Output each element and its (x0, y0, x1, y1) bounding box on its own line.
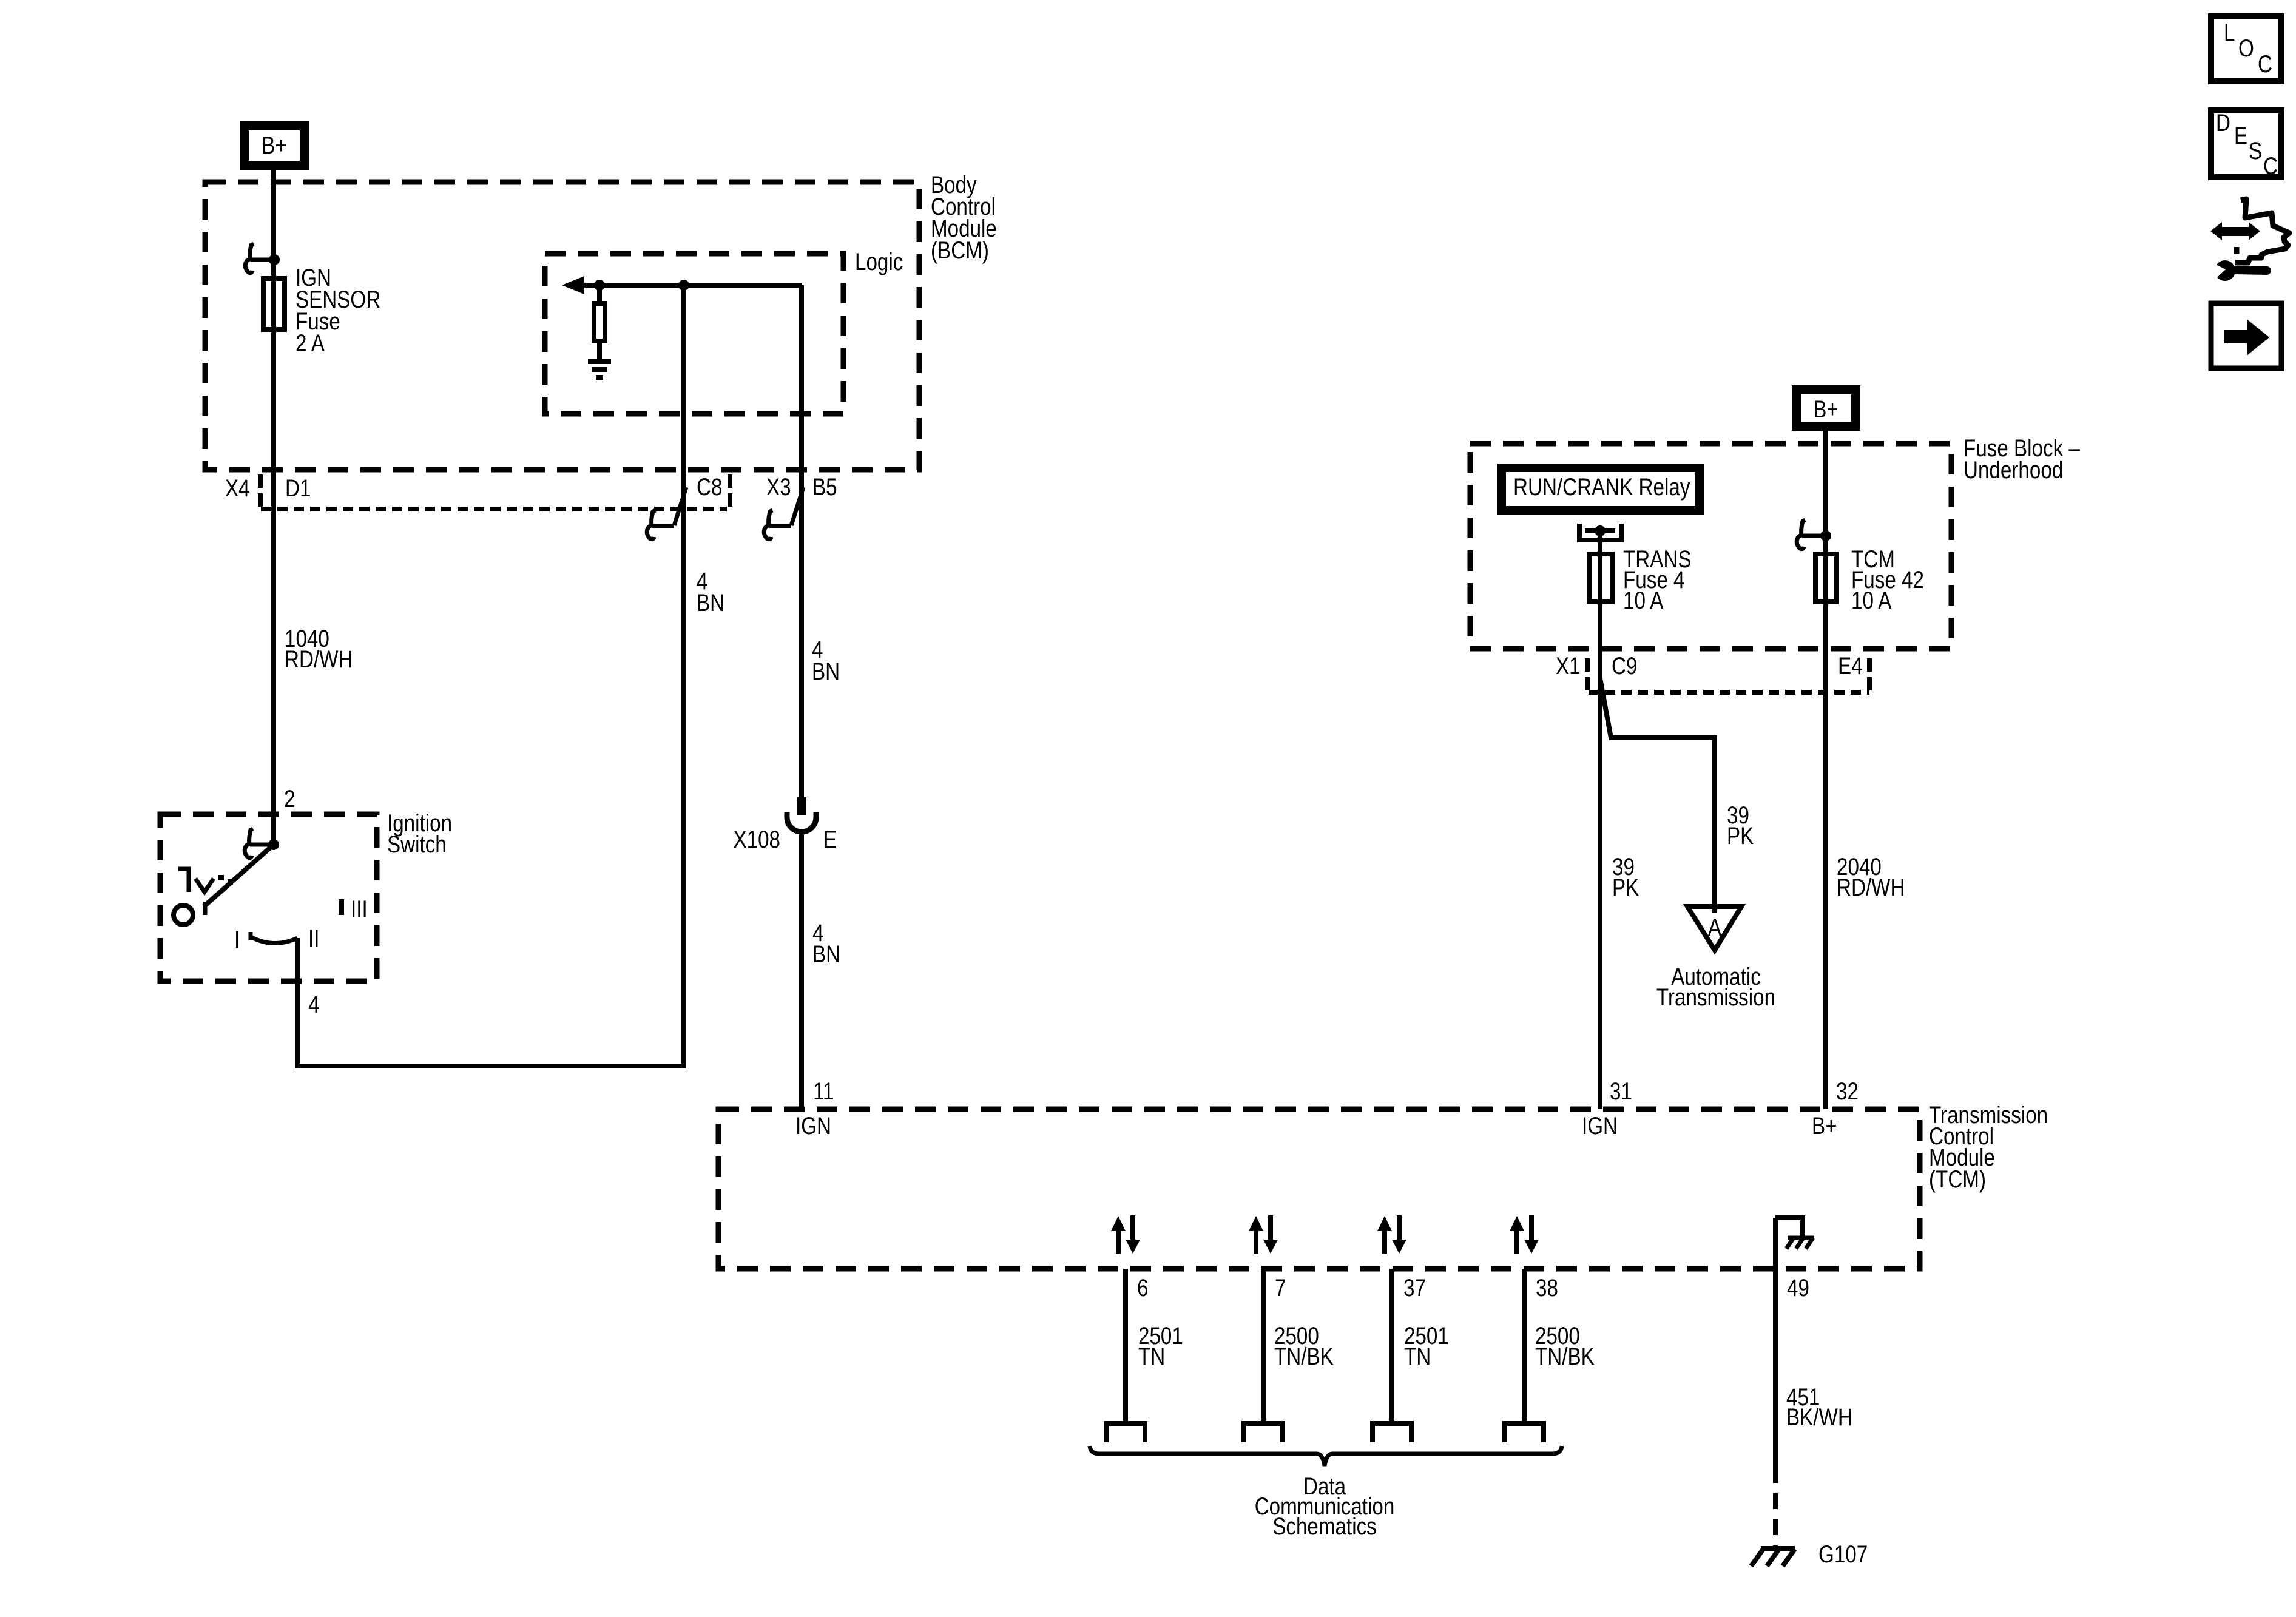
svg-text:TN/BK: TN/BK (1535, 1343, 1595, 1370)
logic bus wire with arrow (570, 283, 802, 288)
rotary contact arc (249, 932, 253, 940)
svg-text:E: E (2234, 122, 2247, 149)
off-page triangle A: Automatic Transmission (1687, 906, 1741, 950)
svg-text:C: C (2263, 152, 2278, 180)
fuse block connector strip X1 C9 / E4 (1589, 690, 1869, 695)
svg-text:RD/WH: RD/WH (1837, 874, 1905, 901)
TCM data pin 7 (1261, 1269, 1266, 1423)
svg-text:C9: C9 (1612, 652, 1637, 680)
Ignition Switch dashed box (160, 814, 377, 981)
svg-text:31: 31 (1610, 1078, 1632, 1105)
svg-text:(TCM): (TCM) (1929, 1166, 1986, 1193)
svg-text:TN: TN (1138, 1343, 1165, 1370)
position mark III (339, 899, 344, 915)
svg-text:RD/WH: RD/WH (285, 646, 353, 673)
BCM connector strip X4/D1 C8 (261, 507, 727, 511)
svg-text:10 A: 10 A (1623, 587, 1664, 614)
diagnostic car/wrench icon (2210, 222, 2260, 240)
node: C8 tap (678, 280, 689, 291)
TCM data pin 37 (1389, 1269, 1394, 1423)
B+ power symbol (left) (245, 126, 305, 166)
ignition key OFF contact mark (178, 869, 189, 892)
brace: Data Communication Schematics (1090, 1446, 1562, 1466)
svg-text:BK/WH: BK/WH (1786, 1403, 1852, 1431)
ignition switch pivot circle (174, 905, 193, 925)
branch wire 39 PK to Automatic Transmission (1600, 678, 1715, 913)
svg-text:S: S (2249, 137, 2262, 164)
svg-text:49: 49 (1787, 1274, 1809, 1301)
RUN/CRANK Relay box (1502, 468, 1700, 510)
svg-text:IGN: IGN (795, 1112, 831, 1139)
svg-text:38: 38 (1536, 1274, 1558, 1301)
arrow icon box (2211, 303, 2281, 368)
svg-text:E4: E4 (1838, 652, 1863, 680)
DESC icon box (2211, 110, 2281, 177)
dashed wire to G107 (1773, 1467, 1778, 1546)
svg-text:III: III (351, 896, 368, 923)
svg-text:PK: PK (1612, 874, 1639, 901)
svg-text:D1: D1 (285, 474, 311, 502)
TCM dashed box (718, 1109, 1920, 1269)
ground symbol in logic box (588, 359, 611, 364)
wire: B+ through TCM fuse 42 to TCM pin 32 (1823, 431, 1828, 1109)
svg-text:B+: B+ (1813, 396, 1838, 423)
relay contact bracket (1579, 524, 1621, 540)
svg-text:6: 6 (1137, 1274, 1148, 1301)
ground G107 (1761, 1546, 1795, 1551)
svg-text:10 A: 10 A (1851, 587, 1892, 614)
svg-text:O: O (2238, 35, 2254, 62)
fuse IGN SENSOR Fuse 2 A (263, 279, 285, 329)
svg-text:BN: BN (812, 940, 840, 968)
Fuse Block - Underhood dashed box (1470, 444, 1951, 649)
wire: B5 branch down from logic (799, 285, 804, 797)
clip at TCM fuse 42 (1797, 520, 1805, 549)
svg-text:X4: X4 (225, 474, 250, 502)
svg-text:Logic: Logic (855, 248, 903, 275)
wire: relay through TRANS fuse to TCM pin 31 (1598, 531, 1602, 1109)
connector slash+hook at X3/B5 (791, 487, 803, 525)
svg-text:32: 32 (1836, 1078, 1859, 1105)
svg-text:L: L (2224, 19, 2235, 46)
svg-text:X3: X3 (766, 473, 791, 501)
svg-text:Underhood: Underhood (1963, 456, 2063, 484)
svg-text:TN: TN (1404, 1343, 1431, 1370)
svg-text:D: D (2216, 109, 2230, 137)
svg-text:2: 2 (284, 785, 295, 812)
svg-text:C8: C8 (697, 473, 722, 501)
ignition switch blade contact tick (203, 902, 208, 915)
B+ power symbol (right) (1797, 390, 1856, 427)
svg-text:Switch: Switch (387, 831, 447, 858)
svg-text:PK: PK (1727, 822, 1754, 849)
ignition switch blade (204, 845, 274, 906)
LOC icon box (2211, 16, 2281, 81)
wire: X108 to TCM pin 11 (799, 832, 804, 1109)
TCM pin 49 with internal chassis ground (1773, 1218, 1778, 1467)
svg-text:(BCM): (BCM) (931, 237, 989, 264)
fuse TCM Fuse 42 10 A (1815, 554, 1837, 602)
svg-text:TN/BK: TN/BK (1274, 1343, 1334, 1370)
clip at ignition switch pin 2 (245, 829, 253, 858)
fuse TRANS Fuse 4 10 A (1589, 554, 1612, 602)
svg-text:X1: X1 (1556, 652, 1581, 680)
wire: C8 branch, ignition switch pin 4 loop (297, 285, 684, 1066)
Logic dashed box inside BCM (545, 254, 843, 414)
svg-text:C: C (2258, 50, 2272, 78)
svg-text:4: 4 (308, 991, 319, 1018)
svg-text:11: 11 (813, 1078, 834, 1105)
pull-up resistor in logic box (597, 285, 602, 301)
svg-text:II: II (308, 925, 319, 952)
X108 inline connector (797, 797, 806, 815)
TCM data pin 38 (1522, 1269, 1527, 1423)
svg-text:IGN: IGN (1582, 1112, 1618, 1139)
svg-text:B5: B5 (812, 473, 837, 501)
svg-text:37: 37 (1403, 1274, 1426, 1301)
TCM data pin 6 (1123, 1269, 1128, 1423)
wire: B+ to ignition switch through IGN SENSOR fuse (271, 170, 276, 845)
svg-text:G107: G107 (1818, 1541, 1868, 1568)
clip symbol at IGN SENSOR fuse (245, 244, 254, 273)
svg-text:A: A (1708, 914, 1722, 941)
svg-text:Schematics: Schematics (1272, 1513, 1377, 1540)
svg-text:Transmission: Transmission (1656, 984, 1775, 1011)
svg-text:2 A: 2 A (295, 329, 325, 357)
connector slash+hook at C8 (674, 487, 686, 525)
svg-text:I: I (234, 926, 240, 953)
svg-text:X108: X108 (733, 826, 780, 853)
svg-text:7: 7 (1275, 1274, 1286, 1301)
svg-text:RUN/CRANK Relay: RUN/CRANK Relay (1513, 473, 1690, 501)
BCM module dashed box (205, 182, 919, 470)
svg-text:B+: B+ (262, 132, 287, 159)
svg-text:BN: BN (697, 589, 724, 616)
svg-text:E: E (823, 826, 837, 853)
svg-text:B+: B+ (1812, 1112, 1837, 1139)
svg-text:BN: BN (812, 658, 840, 685)
node: resistor tap (594, 280, 605, 291)
